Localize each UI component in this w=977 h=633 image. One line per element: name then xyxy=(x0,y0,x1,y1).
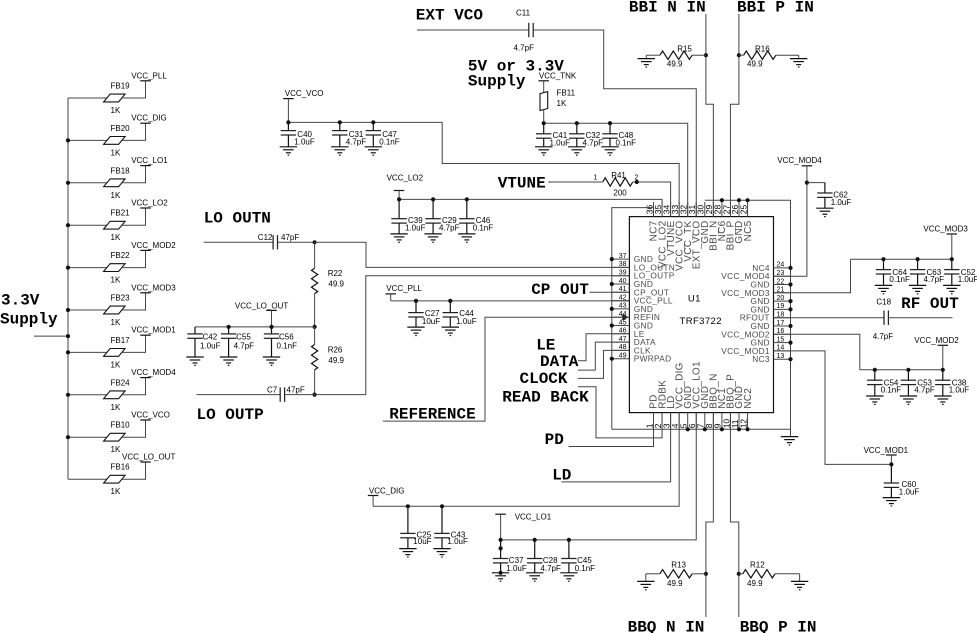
svg-text:19: 19 xyxy=(777,303,785,310)
svg-text:VCC_MOD1: VCC_MOD1 xyxy=(131,326,176,335)
svg-text:VCC_MOD3: VCC_MOD3 xyxy=(923,225,968,234)
svg-text:24: 24 xyxy=(777,262,785,269)
svg-text:4.7pF: 4.7pF xyxy=(873,332,894,341)
svg-text:1.0uF: 1.0uF xyxy=(550,139,571,148)
op-amp U1 TRF3722 body xyxy=(629,217,773,413)
wire VCC_DIG stub xyxy=(372,496,374,507)
svg-text:VCC_TNK: VCC_TNK xyxy=(539,72,577,81)
svg-text:4.7pF: 4.7pF xyxy=(346,138,367,147)
svg-text:22: 22 xyxy=(777,278,785,285)
junction C41 tap xyxy=(542,121,546,125)
capacitor C48 0.1nF xyxy=(601,123,636,155)
wire R16 to ground xyxy=(776,54,799,56)
wire VCC_TNK bypass rail to pin 32 VCC_TK xyxy=(544,123,688,216)
pin 7 GND xyxy=(696,386,711,430)
svg-text:49.9: 49.9 xyxy=(747,579,763,588)
svg-text:1.0uF: 1.0uF xyxy=(958,275,977,284)
junction C55 tap xyxy=(227,325,231,329)
wire branch to FB18 xyxy=(68,182,107,184)
junction GND pin 20 xyxy=(788,299,792,303)
svg-text:34: 34 xyxy=(661,204,671,214)
junction GND rail pin 28 xyxy=(720,198,724,202)
pin 48 CLK xyxy=(612,344,651,355)
resistor R16 49.9 xyxy=(744,44,776,68)
junction GND pin 49 xyxy=(610,357,614,361)
wire VCC_LO1 rail to pin 6 xyxy=(501,413,697,540)
wire R26 to LO_OUTP junction xyxy=(314,370,316,395)
svg-text:C55: C55 xyxy=(236,333,251,342)
svg-text:BBQ N IN: BBQ N IN xyxy=(628,618,705,633)
wire C7 to junction xyxy=(285,394,315,396)
capacitor C32 4.7pF xyxy=(568,123,603,155)
svg-text:1K: 1K xyxy=(111,445,121,454)
svg-text:FB19: FB19 xyxy=(111,82,131,91)
pin 37 GND xyxy=(612,253,653,264)
node VCC_MOD4 power symbol xyxy=(777,156,822,183)
junction C43 tap xyxy=(440,504,444,508)
junction GND pin 45 xyxy=(610,323,614,327)
svg-text:1K: 1K xyxy=(111,487,121,496)
wire pin 14 to VCC_MOD1 xyxy=(774,351,892,465)
svg-text:1.0uF: 1.0uF xyxy=(506,564,527,573)
junction GND pin 24 xyxy=(788,266,792,270)
svg-text:PWRPAD: PWRPAD xyxy=(634,354,672,364)
capacitor C43 1.0uF xyxy=(433,506,468,557)
junction 3.3V tap xyxy=(66,334,70,338)
junction GND rail pin 12 xyxy=(745,427,749,431)
svg-text:FB23: FB23 xyxy=(111,294,131,303)
junction bus/FB24 xyxy=(66,393,70,397)
junction bus/FB20 xyxy=(66,138,70,142)
node VCC_MOD1 power symbol xyxy=(864,446,909,465)
node VCC_LO_OUT power symbol xyxy=(235,301,288,310)
node VCC_MOD3 power symbol xyxy=(131,283,176,293)
wire R41 to pin 34 VTUNE xyxy=(633,182,671,217)
svg-text:3.3V: 3.3V xyxy=(1,292,40,310)
svg-text:C56: C56 xyxy=(279,333,294,342)
capacitor C31 4.7pF xyxy=(331,122,366,155)
wire VCC_LO_OUT rail xyxy=(195,326,315,328)
svg-text:200: 200 xyxy=(613,189,627,198)
node VCC_VCO power symbol xyxy=(131,411,170,421)
ferrite bead FB24 xyxy=(104,378,131,412)
pin 16 VCC_MOD2 xyxy=(721,328,790,339)
svg-text:CLOCK: CLOCK xyxy=(520,370,568,388)
svg-text:26: 26 xyxy=(730,204,740,214)
junction C38 tap xyxy=(941,368,945,372)
wire FB20 to net stub xyxy=(122,123,146,140)
wire VCC_MOD4 to C62 xyxy=(807,182,825,184)
pin 26 GND xyxy=(730,202,745,244)
wire FB18 to net stub xyxy=(122,166,146,183)
wire EXT VCO to C11 xyxy=(417,29,529,31)
junction C37 tap xyxy=(499,538,503,542)
svg-text:VCC_MOD4: VCC_MOD4 xyxy=(131,368,176,377)
wire VTUNE to R41 xyxy=(548,181,603,183)
wire branch to FB10 xyxy=(68,436,107,438)
resistor R26 49.9 xyxy=(312,345,345,370)
svg-text:TRF3722: TRF3722 xyxy=(680,316,722,327)
svg-text:4.7pF: 4.7pF xyxy=(924,275,945,284)
junction bus/FB22 xyxy=(66,266,70,270)
node VCC_DIG power symbol xyxy=(131,114,167,124)
ground main GND rail xyxy=(781,429,798,445)
svg-text:10uF: 10uF xyxy=(422,317,440,326)
wire mid junction to R26 xyxy=(314,327,316,345)
svg-text:NC4: NC4 xyxy=(752,263,770,273)
wire C18 to RF OUT xyxy=(888,317,952,319)
pin 8 BBQ_N xyxy=(704,373,719,429)
svg-text:42: 42 xyxy=(619,294,627,301)
wire FB11 to bypass rail xyxy=(543,110,545,123)
wire R22 to mid junction xyxy=(314,294,316,327)
svg-text:4.7pF: 4.7pF xyxy=(439,224,460,233)
resistor R12 49.9 xyxy=(743,560,775,588)
wire LO_OUTP to pin 39 xyxy=(315,276,630,395)
svg-text:C11: C11 xyxy=(516,9,531,18)
capacitor C28 4.7pF xyxy=(526,540,561,581)
wire C12 to junction xyxy=(278,241,315,243)
capacitor C18 4.7pF xyxy=(873,298,894,342)
wire branch to FB23 xyxy=(68,309,107,311)
capacitor C38 1.0uF xyxy=(934,370,969,405)
wire branch to FB20 xyxy=(68,139,107,141)
svg-text:LE: LE xyxy=(536,337,555,355)
junction bus/FB18 xyxy=(66,181,70,185)
pin 2 RDBK xyxy=(653,380,668,430)
ferrite bead FB21 xyxy=(104,209,131,243)
svg-text:46: 46 xyxy=(619,328,627,335)
svg-text:13: 13 xyxy=(777,353,785,360)
junction LO_OUTN xyxy=(313,240,317,244)
junction C25 tap xyxy=(406,504,410,508)
resistor R13 49.9 xyxy=(660,560,692,588)
ferrite bead FB10 xyxy=(104,421,131,455)
svg-text:1: 1 xyxy=(594,175,598,182)
node VCC_LO1 power symbol xyxy=(495,513,551,522)
svg-text:44: 44 xyxy=(619,311,627,318)
pin 49 PWRPAD xyxy=(612,353,672,364)
wire pin 8 BBQ_N to bottom xyxy=(706,413,713,617)
wire bottom GND rail xyxy=(612,428,791,430)
junction GND rail pin 5 xyxy=(686,427,690,431)
junction LO_OUTP xyxy=(313,393,317,397)
pin 29 BBI_N xyxy=(704,202,719,251)
wire right GND bus xyxy=(790,200,792,429)
svg-text:Supply: Supply xyxy=(0,311,58,329)
svg-text:43: 43 xyxy=(619,303,627,310)
wire LO OUTP to C7 xyxy=(197,394,281,396)
ferrite bead FB20 xyxy=(104,124,131,158)
junction C52 tap xyxy=(950,257,954,261)
svg-text:DATA: DATA xyxy=(540,353,579,371)
svg-text:R22: R22 xyxy=(328,269,343,278)
svg-text:READ BACK: READ BACK xyxy=(502,389,589,407)
svg-text:30: 30 xyxy=(696,204,706,214)
junction C31 tap xyxy=(338,120,342,124)
svg-text:VCC_MOD2: VCC_MOD2 xyxy=(914,336,959,345)
wire branch to FB21 xyxy=(68,224,107,226)
svg-text:VCC_LO2: VCC_LO2 xyxy=(387,174,424,183)
ferrite bead FB11 1K xyxy=(540,89,576,111)
svg-text:Supply: Supply xyxy=(468,73,526,91)
svg-text:28: 28 xyxy=(713,204,723,214)
node VCC_MOD3 power symbol xyxy=(923,225,968,260)
pin 38 LO_OUTN xyxy=(612,261,675,272)
wire FB17 to net stub xyxy=(122,335,146,352)
svg-text:4.7pF: 4.7pF xyxy=(234,341,255,350)
svg-text:4.7pF: 4.7pF xyxy=(540,564,561,573)
capacitor C40 1.0uF xyxy=(280,122,315,155)
capacitor C29 4.7pF xyxy=(424,199,459,242)
svg-text:VCC_VCO: VCC_VCO xyxy=(285,89,324,98)
node VCC_MOD1 power symbol xyxy=(131,326,176,336)
node VCC_LO1 power symbol xyxy=(131,156,168,166)
pin 45 GND xyxy=(612,319,653,330)
capacitor C41 1.0uF xyxy=(535,123,570,155)
pin 3 LD xyxy=(661,395,676,429)
junction BBI_N / R15 xyxy=(704,53,708,57)
ferrite bead FB22 xyxy=(104,251,131,285)
ferrite bead FB23 xyxy=(104,294,131,328)
svg-text:1K: 1K xyxy=(111,276,121,285)
svg-text:FB20: FB20 xyxy=(111,124,131,133)
svg-text:0.1nF: 0.1nF xyxy=(889,275,910,284)
svg-text:1.0uF: 1.0uF xyxy=(200,341,221,350)
pin 30 GND xyxy=(696,202,711,244)
svg-text:45: 45 xyxy=(619,319,627,326)
svg-text:C18: C18 xyxy=(876,298,891,307)
wire pin 10 BBQ_P to bottom xyxy=(730,413,738,617)
svg-text:FB16: FB16 xyxy=(111,463,131,472)
pin 39 LO_OUTP xyxy=(612,270,675,281)
svg-text:33: 33 xyxy=(670,204,680,214)
junction bus/FB10 xyxy=(66,435,70,439)
ground R16 xyxy=(790,55,807,67)
svg-text:VCC_LO2: VCC_LO2 xyxy=(131,199,168,208)
capacitor C37 1.0uF xyxy=(492,540,527,581)
svg-text:EXT VCO: EXT VCO xyxy=(416,7,484,25)
junction GND pin 22 xyxy=(788,282,792,286)
svg-text:32: 32 xyxy=(679,204,689,214)
capacitor C62 1.0uF xyxy=(816,183,851,217)
capacitor C60 1.0uF xyxy=(883,464,920,506)
junction bus/FB23 xyxy=(66,308,70,312)
pin 43 GND xyxy=(612,303,653,314)
pin 34 VTUNE xyxy=(661,202,676,256)
wire R12 to ground xyxy=(775,573,800,575)
junction C54 tap xyxy=(873,368,877,372)
pin 31 EXT_VCO xyxy=(687,202,702,269)
svg-text:FB22: FB22 xyxy=(111,251,131,260)
wire VCC_PLL stub xyxy=(390,294,392,301)
svg-text:C42: C42 xyxy=(203,333,218,342)
svg-text:NC7: NC7 xyxy=(649,220,660,241)
svg-text:C7: C7 xyxy=(267,385,278,394)
pin 27 BBI_P xyxy=(721,202,736,250)
svg-text:4.7pF: 4.7pF xyxy=(514,44,535,53)
junction C44 tap xyxy=(448,299,452,303)
pin 21 VCC_MOD3 xyxy=(721,287,790,298)
wire PD to pin 1 xyxy=(569,413,654,447)
pin 14 VCC_MOD1 xyxy=(721,345,790,356)
svg-text:41: 41 xyxy=(619,286,627,293)
node VCC_TNK power symbol xyxy=(538,72,576,81)
junction GND pin 17 xyxy=(788,324,792,328)
pin 28 NC6 xyxy=(713,202,728,241)
wire branch to FB24 xyxy=(68,394,107,396)
capacitor C47 0.1nF xyxy=(365,122,400,155)
svg-text:1.0uF: 1.0uF xyxy=(456,317,477,326)
capacitor C7 47pF xyxy=(267,385,305,401)
junction C46 tap xyxy=(465,197,469,201)
wire 3.3V supply bus xyxy=(67,98,69,479)
svg-text:39: 39 xyxy=(619,270,627,277)
svg-text:36: 36 xyxy=(644,204,654,214)
svg-text:31: 31 xyxy=(687,204,697,214)
svg-text:VCC_LO1: VCC_LO1 xyxy=(131,156,168,165)
wire C11 to pin 31 EXT_VCO xyxy=(533,30,696,217)
svg-text:27: 27 xyxy=(721,204,731,214)
wire FB16 to net stub xyxy=(122,462,146,479)
junction C37 stem xyxy=(499,546,503,550)
pin 32 VCC_TK xyxy=(679,202,694,262)
ferrite bead FB16 xyxy=(104,463,131,497)
node VCC_LO2 power symbol xyxy=(387,174,424,191)
svg-text:FB21: FB21 xyxy=(111,209,131,218)
svg-text:49.9: 49.9 xyxy=(328,356,344,365)
junction GND rail pin 11 xyxy=(737,427,741,431)
pin 18 RFOUT xyxy=(740,312,791,323)
wire VCC_MOD3 rail xyxy=(851,258,952,260)
junction C29 tap xyxy=(431,197,435,201)
pin 20 GND xyxy=(750,295,790,306)
junction GND pin 13 xyxy=(788,357,792,361)
pin 19 GND xyxy=(750,303,790,314)
wire FB22 to net stub xyxy=(122,250,146,267)
pin 44 REFIN xyxy=(612,311,660,322)
junction C40 tap xyxy=(286,120,290,124)
svg-text:CP OUT: CP OUT xyxy=(531,281,589,299)
wire LD to pin 3 xyxy=(561,413,670,482)
pin 44 REFIN input arrow xyxy=(622,314,629,320)
junction C48 tap xyxy=(608,121,612,125)
junction bus/FB21 xyxy=(66,223,70,227)
svg-text:1K: 1K xyxy=(557,99,567,108)
wire pin 21 to VCC_MOD3 rail xyxy=(774,259,851,293)
pin 22 GND xyxy=(750,278,790,289)
svg-text:29: 29 xyxy=(704,204,714,214)
wire pin 23 to VCC_MOD4 xyxy=(774,183,807,277)
svg-text:C12: C12 xyxy=(258,233,273,242)
svg-text:1K: 1K xyxy=(111,148,121,157)
node VCC_MOD4 power symbol xyxy=(131,368,176,378)
svg-text:LO OUTP: LO OUTP xyxy=(197,406,264,424)
svg-text:1.0uF: 1.0uF xyxy=(405,224,426,233)
wire R15 to BBI_N xyxy=(692,54,706,56)
junction R41 pin 2 xyxy=(635,180,639,184)
svg-text:1K: 1K xyxy=(111,318,121,327)
svg-text:1K: 1K xyxy=(111,403,121,412)
resistor R15 49.9 xyxy=(660,44,693,68)
ferrite bead FB19 xyxy=(104,82,131,116)
capacitor C63 4.7pF xyxy=(909,259,944,294)
pin 9 NC1 xyxy=(713,388,728,430)
svg-text:VCC_MOD1: VCC_MOD1 xyxy=(864,446,909,455)
svg-text:VCC_PLL: VCC_PLL xyxy=(131,71,167,80)
capacitor C64 0.1nF xyxy=(875,259,910,294)
pin 1 PD xyxy=(644,394,659,429)
wire DATA to pin 47 xyxy=(578,342,630,370)
node VCC_LO_OUT power symbol xyxy=(122,453,175,463)
ferrite bead FB17 xyxy=(104,336,131,370)
capacitor C53 4.7pF xyxy=(900,370,935,405)
pin 42 VCC_PLL xyxy=(612,294,673,305)
node VCC_PLL power symbol xyxy=(385,284,422,294)
svg-text:47pF: 47pF xyxy=(281,233,299,242)
junction C28 tap xyxy=(533,538,537,542)
svg-text:38: 38 xyxy=(619,261,627,268)
wire branch to FB16 xyxy=(68,478,107,480)
svg-text:4.7pF: 4.7pF xyxy=(583,139,604,148)
wire BBI_P to pin 27 xyxy=(730,14,738,217)
capacitor C12 47pF xyxy=(258,233,300,249)
svg-text:NC2: NC2 xyxy=(743,388,754,409)
wire BBQ_P to R12 xyxy=(739,573,743,575)
wire VCC_LO_OUT stub xyxy=(271,310,273,327)
svg-text:FB17: FB17 xyxy=(111,336,131,345)
junction C45 tap xyxy=(567,538,571,542)
pin 4 VCC_DIG xyxy=(670,362,685,429)
capacitor C54 0.1nF xyxy=(866,370,901,405)
svg-text:47pF: 47pF xyxy=(287,385,305,394)
junction VCC_MOD4 / C62 xyxy=(805,181,809,185)
pin 12 NC2 xyxy=(738,388,753,430)
capacitor C52 1.0uF xyxy=(943,259,977,294)
capacitor C11 4.7pF xyxy=(514,9,535,53)
node VCC_VCO power symbol xyxy=(283,89,323,99)
svg-text:49: 49 xyxy=(619,353,627,360)
svg-text:4.7pF: 4.7pF xyxy=(914,386,935,395)
pin 13 NC3 xyxy=(752,353,790,364)
pin 10 BBQ_P xyxy=(721,374,736,429)
svg-text:35: 35 xyxy=(653,204,663,214)
junction bus/FB17 xyxy=(66,350,70,354)
svg-text:FB24: FB24 xyxy=(111,378,131,387)
svg-text:VCC_MOD3: VCC_MOD3 xyxy=(131,283,176,292)
svg-text:FB11: FB11 xyxy=(557,89,576,98)
wire VCC_VCO rail to pin 33 VCC_VCO xyxy=(288,122,679,216)
svg-text:49.9: 49.9 xyxy=(667,579,683,588)
pin 11 GND xyxy=(730,386,745,430)
node VCC_PLL power symbol xyxy=(131,71,167,81)
junction C64 tap xyxy=(881,257,885,261)
pin 35 VCC_LO2 xyxy=(653,202,668,268)
junction GND pin 40 xyxy=(610,282,614,286)
svg-text:LO OUTN: LO OUTN xyxy=(204,209,271,227)
junction GND rail pin 9 xyxy=(720,427,724,431)
svg-text:1K: 1K xyxy=(111,360,121,369)
svg-text:47: 47 xyxy=(619,336,627,343)
svg-text:15: 15 xyxy=(777,336,785,343)
junction GND rail pin 26 xyxy=(737,198,741,202)
ground R12 xyxy=(791,574,808,590)
pin 6 VCC_LO1 xyxy=(687,361,702,429)
wire pin 16 to VCC_MOD2 rail xyxy=(774,334,860,370)
wire FB23 to net stub xyxy=(122,293,146,310)
junction C27 tap xyxy=(414,299,418,303)
capacitor C45 0.1nF xyxy=(560,540,595,581)
